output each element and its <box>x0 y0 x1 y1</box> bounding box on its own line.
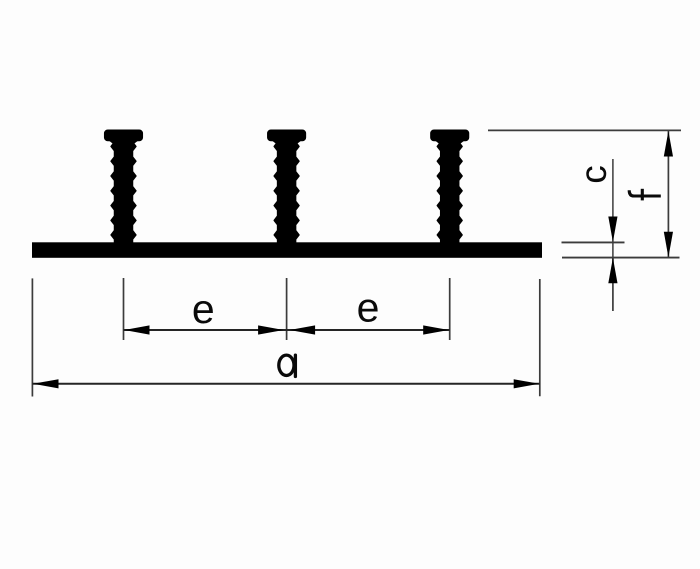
label f (rotated, drawn) <box>629 189 661 201</box>
svg-text:c: c <box>573 165 614 184</box>
extension line bar top (for c) <box>562 241 625 243</box>
dimension f line <box>667 131 669 257</box>
extension line a left <box>31 278 33 396</box>
dimension a arrow right <box>514 379 540 388</box>
dimension f arrow down <box>664 232 673 257</box>
dimension e2 line <box>287 329 450 331</box>
anchor screw 3 <box>431 130 469 244</box>
extension line top (head level, for f) <box>488 129 681 131</box>
dimension f arrow up <box>664 131 673 157</box>
anchor screw 2 <box>268 130 306 244</box>
extension line bar bottom (for c and f) <box>562 257 680 259</box>
dimension a arrow left <box>33 379 59 388</box>
extension line below screw 2 <box>286 278 288 340</box>
anchor screw 1 <box>105 130 143 244</box>
dimension e2 arrow left <box>290 325 316 334</box>
dimension c arrow down <box>608 217 617 243</box>
extension line a right <box>539 279 541 396</box>
dimension e1 arrow left <box>124 325 150 334</box>
svg-text:e: e <box>357 285 380 331</box>
dimension c line lower <box>612 258 614 311</box>
dimension c line upper <box>612 159 614 265</box>
extension line below screw 1 <box>123 278 125 340</box>
dimension e1 arrow right <box>258 325 284 334</box>
label a (single-storey glyph drawn) <box>279 355 296 376</box>
dimension e1 line <box>124 329 287 331</box>
extension line below screw 3 <box>449 278 451 340</box>
base plate bar <box>32 242 542 257</box>
dimension a line <box>32 383 539 385</box>
dimension c arrow up <box>608 258 617 284</box>
dimension e2 arrow right <box>423 325 449 334</box>
svg-text:e: e <box>192 286 215 332</box>
